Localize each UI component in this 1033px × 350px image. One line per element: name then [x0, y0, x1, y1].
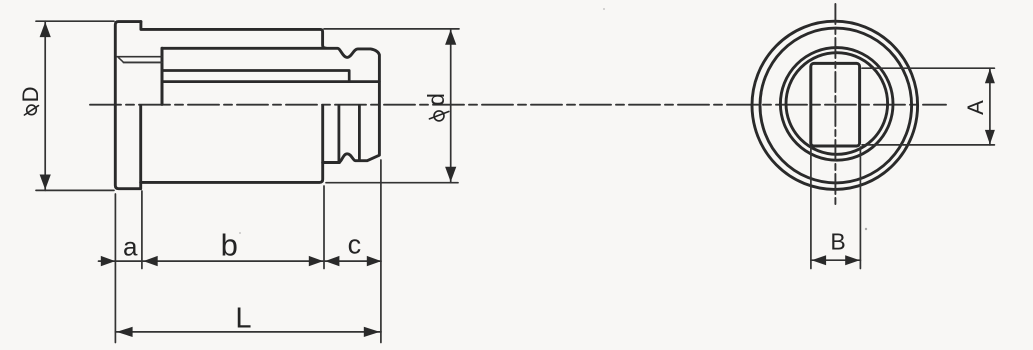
dim B extension left	[810, 147, 812, 269]
end view bore circle outer	[780, 48, 893, 161]
centerline main axis	[90, 104, 946, 106]
end view second circle	[760, 28, 912, 183]
extension line c right	[380, 160, 382, 343]
dim phid arrow up	[445, 30, 456, 45]
label A	[963, 100, 988, 115]
lower vertical groove edge right	[358, 106, 361, 160]
svg-text:b: b	[221, 227, 238, 262]
square hole	[811, 63, 860, 146]
dim phiD line	[44, 21, 46, 190]
dim A line	[989, 68, 991, 145]
label phiD	[18, 86, 43, 115]
slit diagonal	[118, 57, 123, 62]
dim phiD extension top	[36, 20, 114, 22]
svg-text:B: B	[830, 229, 845, 255]
svg-text:A: A	[963, 100, 988, 115]
scan speckle 3	[239, 232, 241, 234]
arrow L left	[117, 327, 133, 337]
arrow b left	[143, 256, 157, 266]
body bottom edge and right face	[141, 106, 323, 183]
dim B arrow left	[812, 255, 827, 265]
sleeve inner line lower	[162, 80, 379, 83]
svg-text:a: a	[123, 231, 138, 261]
extension line b-c	[323, 186, 325, 269]
dim phid line	[450, 29, 452, 182]
svg-text:L: L	[235, 303, 251, 335]
end view bore circle inner	[786, 53, 888, 155]
dim B extension right	[859, 147, 861, 269]
lower vertical groove edge left	[337, 106, 340, 161]
arrow a outside	[101, 256, 115, 266]
dim phid extension bottom	[326, 182, 458, 184]
svg-text:c: c	[348, 230, 362, 260]
end view vertical centerline	[834, 4, 836, 207]
flange step and body top edge	[141, 22, 326, 48]
scan speckle 2	[603, 8, 605, 10]
arrow L right	[364, 327, 380, 337]
dim phid extension top	[324, 28, 459, 30]
sleeve inner line upper with step	[162, 71, 349, 82]
arrow c right	[367, 256, 381, 266]
dim B line	[811, 259, 861, 261]
svg-text:d: d	[423, 93, 449, 106]
dim A arrow down	[985, 130, 995, 145]
slit line lower	[124, 61, 162, 63]
svg-text:D: D	[18, 86, 43, 102]
sleeve top edge and nose top with groove, right edge, bottom chamfer	[162, 48, 379, 162]
dim phiD extension bottom	[36, 189, 114, 191]
extension line a-b	[141, 191, 143, 269]
dim A arrow up	[985, 69, 995, 84]
dim B arrow right	[845, 255, 860, 265]
flange outline	[115, 22, 141, 189]
extension line a left	[114, 194, 116, 343]
arrow b right	[309, 256, 323, 266]
dim A extension bottom	[862, 144, 994, 146]
dim phiD arrow up	[40, 22, 51, 37]
scan speckle 1	[865, 228, 867, 230]
end view outer circle	[752, 21, 918, 189]
nose bottom shoulder line	[323, 161, 340, 164]
dimension line L	[115, 331, 381, 333]
arrow c left	[325, 256, 339, 266]
slit line upper	[117, 56, 162, 58]
dimension line abc	[99, 260, 382, 262]
dim phid arrow down	[445, 167, 456, 182]
label phid	[423, 93, 449, 121]
sleeve left edge	[161, 48, 164, 104]
dim A extension top	[862, 67, 994, 69]
dim phiD arrow down	[40, 175, 51, 190]
